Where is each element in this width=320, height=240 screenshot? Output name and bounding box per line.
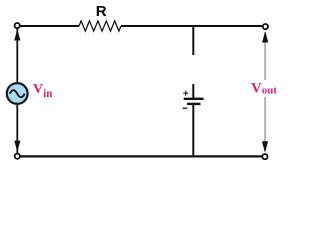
capacitor minus sign	[183, 107, 188, 109]
svg-text:R: R	[96, 3, 107, 20]
white gap behind Vout label	[250, 80, 279, 97]
input terminal top-left	[15, 23, 20, 28]
output terminal top-right	[263, 24, 268, 29]
arrowhead up (Vout top)	[262, 31, 268, 42]
capacitor plus sign	[183, 91, 188, 96]
wire: top-right horizontal segment	[121, 25, 262, 27]
wire: capacitor bottom lead	[192, 104, 194, 157]
arrowhead down (Vout bottom)	[262, 141, 268, 152]
output terminal bottom-right	[262, 154, 267, 159]
arrowhead down (Vin bottom)	[14, 141, 20, 152]
wire: left vertical upper segment	[16, 29, 18, 83]
AC source sine wave	[10, 90, 25, 97]
resistor R (zigzag)	[79, 21, 121, 31]
capacitor C bottom plate	[187, 103, 201, 105]
arrowhead up (Vin top)	[14, 29, 20, 40]
wire: bottom horizontal	[21, 155, 262, 157]
input terminal bottom-left	[15, 154, 20, 159]
wire: middle vertical stub from top wire	[192, 26, 194, 55]
wire: left vertical lower segment	[16, 105, 18, 154]
AC source Vin (circle)	[7, 83, 28, 104]
capacitor C top lead	[192, 84, 194, 99]
gray measurement line Vout	[264, 32, 266, 151]
wire: top-left horizontal segment	[21, 25, 80, 27]
capacitor C top plate	[184, 98, 204, 100]
